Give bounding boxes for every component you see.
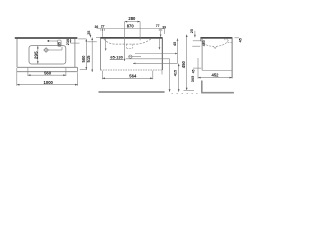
svg-text:452: 452 — [212, 73, 220, 78]
front view top ext stub — [96, 36, 101, 38]
dim 560 line — [28, 74, 66, 76]
floor continuation dots — [172, 92, 174, 94]
svg-text:305: 305 — [190, 75, 195, 82]
front view bottom edge — [100, 69, 162, 71]
top chain ext at 163.4 — [163, 31, 165, 34]
dim 560 ext line left — [27, 68, 29, 76]
side view cabinet front edge — [201, 39, 203, 71]
dim 564 ext far right — [161, 71, 163, 75]
front view right edge — [161, 37, 163, 70]
plan view cabinet right edge — [74, 39, 76, 68]
top dim chain ticks right — [158, 29, 160, 32]
top chain ext at 160.6 — [160, 29, 162, 37]
drain leader — [48, 49, 62, 51]
hidden bowl profile — [104, 39, 151, 44]
circle leader — [132, 56, 141, 58]
slab bottom ext line — [78, 38, 86, 40]
wall-floor corner vertical — [201, 81, 203, 93]
top chain ext at 102.3 — [101, 29, 103, 37]
svg-text:415: 415 — [173, 70, 177, 76]
inner ext line left — [105, 39, 107, 51]
svg-text:36: 36 — [95, 25, 99, 29]
leader upper right — [135, 53, 178, 55]
side view bowl hidden profile — [202, 39, 229, 46]
plan view basin bowl — [29, 46, 66, 64]
side view rim front edge — [200, 37, 202, 41]
side view tap hole — [224, 39, 226, 41]
side height tick bowl — [192, 45, 200, 47]
svg-text:65-130: 65-130 — [110, 55, 123, 60]
svg-text:39: 39 — [162, 25, 166, 29]
dim 500 line — [85, 39, 87, 70]
side height tick top — [193, 40, 201, 42]
dim 515 top tick — [87, 41, 96, 43]
hidden drain funnel — [126, 44, 128, 48]
dim 452 line — [198, 77, 232, 79]
svg-text:230: 230 — [66, 39, 70, 45]
dim 25 line — [89, 33, 91, 37]
svg-text:564: 564 — [129, 73, 137, 78]
dim 280 line — [125, 21, 141, 23]
leader mid right — [126, 58, 170, 60]
label 65-130 underline — [110, 58, 124, 60]
top dim chain ticks left — [100, 29, 102, 31]
svg-text:560: 560 — [44, 71, 52, 76]
leader corner vline — [169, 59, 171, 92]
dim 1000 line — [17, 84, 78, 86]
dim 1000 ext line left — [16, 68, 18, 86]
plan right micro dim line — [70, 39, 72, 44]
dim 280 ext right — [139, 22, 141, 41]
svg-text:45: 45 — [191, 69, 195, 73]
side height dim line — [186, 35, 188, 91]
svg-text:27: 27 — [101, 25, 105, 29]
dim 515 line — [91, 38, 93, 73]
svg-text:77: 77 — [156, 24, 160, 28]
plan right micro dim tick — [71, 42, 80, 44]
svg-text:280: 280 — [128, 16, 136, 21]
side height tick mid — [193, 67, 201, 69]
side view overflow line — [228, 42, 232, 44]
dim 564 line — [102, 77, 153, 79]
plan view cabinet front edge — [17, 66, 77, 68]
dim 560 ext line right — [65, 68, 67, 76]
svg-text:45: 45 — [173, 42, 177, 46]
plan view slab back edge — [15, 37, 78, 39]
svg-text:870: 870 — [127, 24, 135, 29]
drain diamond cross — [45, 49, 47, 51]
tap hole label box — [58, 40, 61, 46]
front view left edge — [99, 37, 101, 70]
tap axis line with arrow — [124, 22, 126, 61]
drain height dim line — [178, 64, 180, 92]
svg-text:515: 515 — [86, 55, 91, 63]
bowl depth dim line 295 — [37, 46, 39, 64]
svg-text:45: 45 — [239, 38, 243, 42]
side view drain notch — [213, 46, 216, 48]
top dim chain line — [97, 28, 165, 30]
side view cabinet bottom — [202, 69, 232, 71]
dim 452 ext line — [197, 58, 199, 79]
side view floor line — [201, 92, 234, 94]
svg-text:450: 450 — [181, 60, 186, 68]
dim 1000 ext line right — [77, 72, 79, 86]
side view back wall — [231, 37, 233, 78]
plan view cabinet left edge — [16, 39, 18, 68]
front view slab — [100, 37, 162, 39]
dim 564 ext left — [101, 71, 103, 80]
tap hole leader — [49, 40, 57, 42]
svg-text:1000: 1000 — [44, 80, 54, 85]
dim 500 foot tick — [80, 69, 87, 71]
inner ext line right — [158, 39, 160, 50]
plan view slab front edge — [17, 71, 77, 73]
dim 25 ext vline — [194, 31, 196, 37]
slab thickness tick right — [235, 37, 239, 39]
plan view slab right front corner — [76, 67, 78, 71]
dim 564 ext right — [152, 71, 154, 80]
drain offset vline — [177, 39, 179, 64]
side view slab — [200, 37, 232, 39]
svg-text:295: 295 — [33, 51, 38, 59]
drain circle symbol — [129, 55, 132, 58]
tap hole dot — [47, 40, 49, 42]
front view floor line — [99, 91, 165, 93]
side height foot tick — [184, 89, 195, 91]
svg-text:25: 25 — [190, 29, 194, 33]
drain diamond — [44, 48, 49, 53]
leader lower right — [133, 62, 178, 64]
drain leader corner — [61, 47, 63, 50]
svg-text:35: 35 — [58, 42, 62, 46]
